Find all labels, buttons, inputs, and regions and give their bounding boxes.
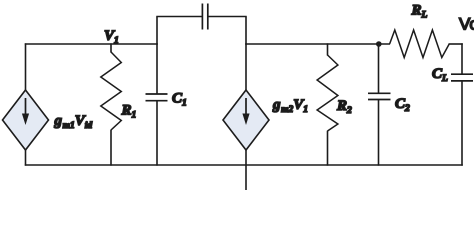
label C1 xyxy=(172,91,187,109)
wire: G2 top stub xyxy=(245,43,247,90)
resistor R2 xyxy=(317,55,338,131)
wire: below G1 xyxy=(25,150,27,166)
wire: C2 bottom stub xyxy=(378,100,380,166)
label gm1Vid xyxy=(54,113,93,131)
resistor RL xyxy=(390,30,450,58)
svg-text:gm1Vid: gm1Vid xyxy=(54,113,93,131)
wire: CL bottom to ground rail xyxy=(461,81,463,166)
wire: riser left of compensation cap xyxy=(156,17,158,45)
capacitor C2 xyxy=(368,93,391,99)
capacitor C1 xyxy=(146,94,168,101)
svg-text:Vo: Vo xyxy=(459,15,474,34)
wire: R2 top stub xyxy=(327,43,329,55)
wire: node 2 rail xyxy=(245,43,390,45)
wire: C1 bottom stub xyxy=(156,101,158,166)
svg-text:gm2V1: gm2V1 xyxy=(272,97,308,115)
wire: R1 bottom stub xyxy=(110,130,112,166)
wire: riser right of compensation cap xyxy=(245,17,247,45)
wire: C1 top stub xyxy=(156,43,158,94)
wire: R2 bottom stub xyxy=(327,131,329,166)
svg-text:V1: V1 xyxy=(104,28,119,46)
svg-text:RL: RL xyxy=(411,3,428,21)
svg-text:C1: C1 xyxy=(172,91,187,109)
label R2 xyxy=(336,98,352,116)
wire: bridge right of compensation cap xyxy=(208,16,247,18)
svg-text:CL: CL xyxy=(432,66,448,84)
label V1 node xyxy=(104,28,119,46)
label R1 xyxy=(121,102,137,120)
label RL xyxy=(411,3,428,21)
wire: G2 bottom ground stub xyxy=(245,150,247,191)
label C2 xyxy=(395,96,410,114)
svg-text:C2: C2 xyxy=(395,96,410,114)
label Vo output xyxy=(459,15,474,34)
dependent current source G1 gm1*Vid xyxy=(3,90,49,150)
wire: bridge left of compensation cap xyxy=(156,16,202,18)
capacitor CL xyxy=(451,74,473,81)
capacitor Cc compensation xyxy=(202,4,207,30)
wire: bottom ground rail xyxy=(25,164,463,166)
wire: output branch down to CL xyxy=(461,43,463,74)
resistor R1 xyxy=(101,52,122,130)
wire: RL to output corner xyxy=(449,43,463,45)
label CL xyxy=(432,66,448,84)
wire: R1 top stub xyxy=(110,43,112,52)
wire: left branch riser to G1 xyxy=(25,43,27,90)
dependent current source G2 gm2*V1 xyxy=(223,90,269,150)
junction dot node 2 xyxy=(376,41,382,47)
svg-text:R1: R1 xyxy=(121,102,137,120)
svg-text:R2: R2 xyxy=(336,98,352,116)
wire: node V1 top rail xyxy=(25,43,158,45)
wire: C2 top stub xyxy=(378,44,380,93)
label gm2V1 xyxy=(272,97,308,115)
